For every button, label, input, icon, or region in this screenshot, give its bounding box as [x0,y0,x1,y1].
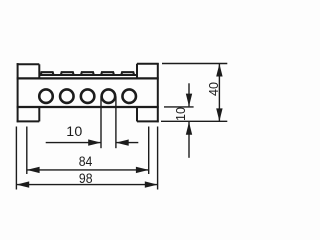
svg-text:98: 98 [79,171,93,187]
svg-text:40: 40 [207,82,221,96]
svg-text:84: 84 [79,154,93,170]
svg-text:10: 10 [174,107,188,121]
svg-text:10: 10 [66,124,82,140]
